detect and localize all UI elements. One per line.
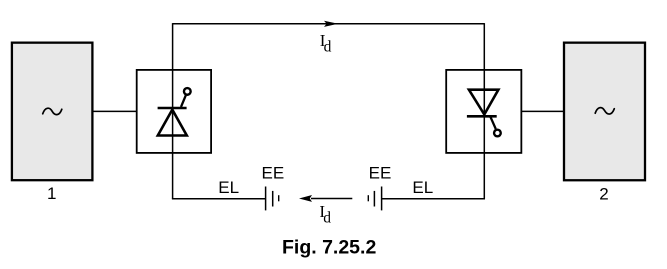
Q2 gate line	[490, 116, 496, 129]
thyristor Q2 (conducting down)	[467, 90, 501, 137]
Q1 gate circle	[184, 88, 191, 95]
wire: box1 to converter U1	[92, 110, 138, 112]
svg-text:1: 1	[47, 184, 56, 203]
Q1 cathode bar	[158, 107, 187, 110]
Q2 triangle	[469, 90, 499, 115]
converter box U1	[137, 70, 211, 153]
AC sine symbol in box 2	[595, 108, 614, 114]
AC sine symbol in box 1	[43, 108, 62, 114]
svg-text:d: d	[323, 210, 331, 227]
Q1 triangle	[158, 110, 187, 136]
battery B2 medium plate	[373, 191, 375, 207]
battery B2 long plate	[381, 187, 383, 211]
battery B1 long plate	[265, 187, 267, 211]
converter box U2	[446, 70, 521, 153]
AC system box 1	[12, 43, 93, 181]
thyristor Q1 (conducting up)	[158, 88, 191, 135]
svg-text:EE: EE	[262, 164, 285, 183]
svg-text:Fig. 7.25.2: Fig. 7.25.2	[282, 236, 376, 258]
svg-text:EL: EL	[412, 178, 433, 197]
svg-text:d: d	[324, 38, 332, 55]
arrowhead mid Id (pointing left)	[299, 195, 312, 202]
Q2 gate circle	[494, 130, 501, 137]
wire: bottom right from battery to riser	[382, 198, 485, 200]
wire: right vertical riser through U2	[483, 23, 485, 199]
wire: converter U2 to box2	[521, 110, 565, 112]
wire: mid arrow shaft	[311, 197, 352, 199]
battery B1 short plate	[278, 195, 280, 201]
Q2 cathode bar	[467, 115, 497, 118]
Q1 gate line	[181, 95, 186, 107]
svg-text:2: 2	[599, 184, 608, 203]
svg-text:EL: EL	[218, 178, 239, 197]
AC system box 2	[564, 43, 645, 181]
battery B1 medium plate	[272, 191, 274, 207]
wire: bottom left to battery	[172, 198, 266, 200]
svg-text:EE: EE	[369, 164, 392, 183]
wire: top dc link	[173, 23, 485, 25]
wire: left vertical riser through U1	[172, 23, 174, 199]
battery B2 short plate	[367, 195, 369, 201]
arrowhead top Id	[324, 21, 338, 27]
